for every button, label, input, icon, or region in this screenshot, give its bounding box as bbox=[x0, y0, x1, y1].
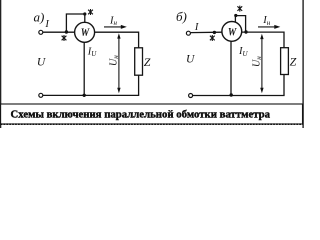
wire wattmeter to load corner (a) bbox=[95, 32, 139, 48]
node top dot (a) bbox=[83, 12, 86, 15]
wire input to wattmeter (b) bbox=[191, 31, 223, 33]
svg-text:I: I bbox=[194, 22, 199, 33]
wire resistor to bottom (b) bbox=[283, 75, 285, 96]
node polarity dot (b) bbox=[213, 31, 216, 34]
resistor Z (a) bbox=[135, 48, 143, 75]
voltage coil loop wire (a) bbox=[66, 14, 84, 32]
arrow Un double (a) bbox=[118, 36, 120, 90]
wire resistor to bottom (a) bbox=[138, 75, 140, 95]
terminal input bottom (b) bbox=[189, 94, 193, 98]
node top dot (b) bbox=[234, 14, 237, 17]
voltage coil lead wire IU (a) bbox=[83, 42, 85, 95]
wattmeter W (b) bbox=[222, 22, 242, 42]
svg-text:W: W bbox=[228, 27, 237, 39]
svg-text:U: U bbox=[186, 53, 195, 65]
svg-text:W: W bbox=[81, 27, 90, 39]
arrow Un double (b) bbox=[261, 37, 263, 91]
asterisk current coil (a) bbox=[62, 35, 67, 41]
node junction bottom (a) bbox=[83, 94, 86, 97]
svg-text:б): б) bbox=[176, 9, 187, 24]
svg-text:Z: Z bbox=[290, 54, 297, 68]
wattmeter W (a) bbox=[75, 22, 95, 42]
frame left border bbox=[0, 0, 1, 128]
arrow In (b) bbox=[258, 26, 276, 28]
terminal input top (b) bbox=[186, 31, 190, 35]
voltage coil loop wire (b) bbox=[235, 16, 245, 32]
svg-text:U: U bbox=[37, 56, 46, 68]
wire bottom (a) bbox=[43, 94, 139, 96]
arrow In (a) bbox=[104, 26, 122, 28]
terminal input bottom (a) bbox=[39, 93, 43, 97]
svg-text:Схемы включения параллельной о: Схемы включения параллельной обмотки ват… bbox=[11, 109, 271, 121]
svg-text:Z: Z bbox=[144, 55, 151, 69]
voltage coil lead wire IU (b) bbox=[230, 41, 232, 95]
asterisk current coil (b) bbox=[210, 35, 215, 41]
asterisk voltage coil (a) bbox=[88, 9, 93, 15]
node junction right (b) bbox=[244, 30, 247, 33]
frame right border bbox=[302, 0, 303, 128]
svg-text:а): а) bbox=[34, 10, 45, 25]
wire wattmeter to load corner (b) bbox=[242, 32, 284, 48]
terminal input top (a) bbox=[39, 30, 43, 34]
asterisk voltage coil (b) bbox=[237, 6, 242, 12]
node junction bottom (b) bbox=[230, 93, 233, 96]
node junction left (a) bbox=[65, 30, 68, 33]
caption box bottom dotted border bbox=[1, 123, 303, 125]
caption box bbox=[1, 104, 303, 124]
resistor Z (b) bbox=[281, 48, 289, 75]
wire input to junction (a) bbox=[43, 31, 75, 33]
wire bottom (b) bbox=[193, 95, 285, 97]
svg-text:I: I bbox=[44, 19, 49, 30]
